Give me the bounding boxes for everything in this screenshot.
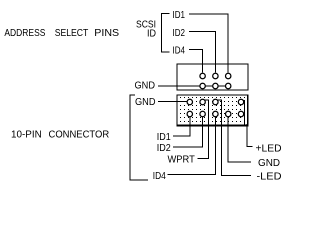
wire pin5 top to +LED xyxy=(242,101,244,125)
svg-text:GND: GND xyxy=(258,158,280,169)
svg-text:ID1: ID1 xyxy=(173,10,186,21)
svg-text:ID4: ID4 xyxy=(173,45,186,56)
connector pins top row xyxy=(187,99,244,104)
bracket connector labels group xyxy=(130,95,148,180)
bracket SCSI ID group xyxy=(162,14,170,53)
address select pins box xyxy=(177,64,248,90)
svg-text:ID: ID xyxy=(147,29,156,40)
svg-text:ID2: ID2 xyxy=(157,143,171,154)
svg-text:GND: GND xyxy=(135,97,156,108)
svg-text:ID1: ID1 xyxy=(157,132,171,143)
svg-text:GND: GND xyxy=(135,81,156,92)
svg-text:10-PIN: 10-PIN xyxy=(11,130,42,141)
jumper pin top row xyxy=(200,73,231,78)
wire pin1 bottom to ID1 xyxy=(173,117,190,136)
wire pin3 top to -LED xyxy=(217,100,251,176)
svg-text:CONNECTOR: CONNECTOR xyxy=(49,130,110,141)
wire ID2 to address pin col2 xyxy=(189,32,215,73)
wire GND to connector pin 1 xyxy=(158,101,188,103)
svg-text:-LED: -LED xyxy=(257,172,282,183)
wire ID1 to address pin col3 xyxy=(189,14,228,73)
wire pin4 bottom to GND right xyxy=(228,117,251,162)
svg-text:SELECT: SELECT xyxy=(55,28,89,39)
wire pin2 bottom to ID2 xyxy=(173,117,203,147)
10-pin connector box with dotted fill xyxy=(177,95,249,126)
svg-text:ADDRESS: ADDRESS xyxy=(4,28,45,39)
svg-text:ID4: ID4 xyxy=(153,171,166,182)
svg-text:ID2: ID2 xyxy=(173,28,186,39)
connector pins bottom row xyxy=(187,111,244,116)
jumper pin bottom row xyxy=(200,83,231,88)
svg-text:+LED: +LED xyxy=(256,144,282,155)
wire GND common row xyxy=(158,85,228,87)
wire ID4 to address pin col1 xyxy=(189,50,203,73)
svg-text:WPRT: WPRT xyxy=(168,154,195,165)
svg-text:PINS: PINS xyxy=(94,28,119,39)
wire pin2 top to WPRT xyxy=(198,100,209,159)
wire pin3 bottom to ID4 xyxy=(168,117,216,175)
